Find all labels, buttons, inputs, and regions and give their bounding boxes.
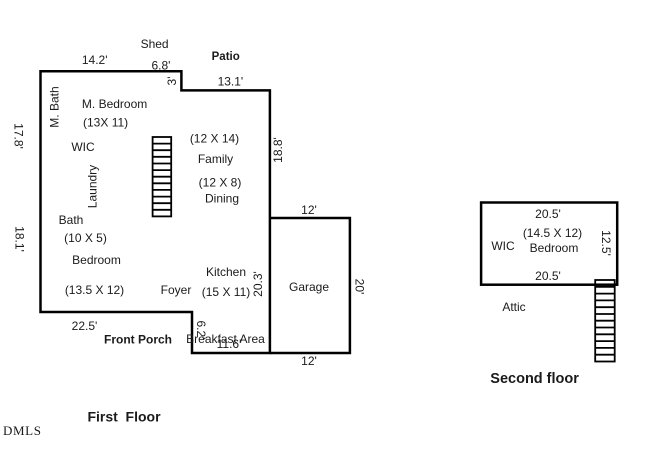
svg-text:20': 20' bbox=[353, 279, 367, 295]
svg-text:Front Porch: Front Porch bbox=[104, 333, 172, 347]
svg-text:(15 X 11): (15 X 11) bbox=[202, 285, 250, 299]
svg-text:Foyer: Foyer bbox=[161, 283, 192, 297]
svg-text:14.2': 14.2' bbox=[82, 53, 108, 67]
svg-text:Dining: Dining bbox=[205, 192, 239, 206]
svg-text:3': 3' bbox=[165, 77, 179, 86]
svg-text:DMLS: DMLS bbox=[3, 423, 42, 438]
svg-text:11.6': 11.6' bbox=[217, 337, 242, 351]
first floor staircase bbox=[153, 137, 172, 216]
svg-text:(14.5 X 12): (14.5 X 12) bbox=[523, 226, 582, 240]
svg-text:Attic: Attic bbox=[502, 300, 525, 314]
svg-text:Second floor: Second floor bbox=[490, 371, 579, 387]
svg-text:12': 12' bbox=[301, 203, 317, 217]
svg-text:12': 12' bbox=[301, 354, 317, 368]
svg-text:12.5': 12.5' bbox=[599, 230, 613, 256]
svg-text:(10 X 5): (10 X 5) bbox=[64, 231, 107, 245]
svg-text:Garage: Garage bbox=[289, 280, 329, 294]
garage wall outline bbox=[270, 218, 350, 353]
svg-text:6.2': 6.2' bbox=[194, 321, 208, 340]
svg-text:6.8': 6.8' bbox=[152, 59, 171, 73]
svg-text:18.1': 18.1' bbox=[13, 226, 27, 252]
svg-text:Bedroom: Bedroom bbox=[530, 241, 579, 255]
svg-text:20.5': 20.5' bbox=[535, 207, 561, 221]
svg-text:18.8': 18.8' bbox=[271, 137, 285, 163]
svg-text:22.5': 22.5' bbox=[72, 319, 98, 333]
first floor exterior wall outline bbox=[41, 71, 270, 353]
svg-text:Family: Family bbox=[198, 152, 233, 166]
svg-text:M. Bath: M. Bath bbox=[48, 86, 62, 127]
second floor wall outline bbox=[481, 203, 617, 285]
svg-text:WIC: WIC bbox=[491, 239, 515, 253]
svg-text:Shed: Shed bbox=[141, 37, 169, 51]
svg-text:Patio: Patio bbox=[212, 51, 240, 63]
svg-text:(13.5 X 12): (13.5 X 12) bbox=[65, 283, 124, 297]
svg-text:First Floor: First Floor bbox=[87, 409, 161, 425]
svg-text:Laundry: Laundry bbox=[86, 165, 100, 208]
svg-text:(12 X 8): (12 X 8) bbox=[199, 176, 242, 190]
svg-text:20.5': 20.5' bbox=[535, 269, 561, 283]
svg-text:13.1': 13.1' bbox=[218, 75, 244, 89]
svg-text:17.8': 17.8' bbox=[12, 123, 26, 149]
svg-text:Kitchen: Kitchen bbox=[206, 265, 246, 279]
svg-text:20.3': 20.3' bbox=[251, 271, 265, 297]
svg-text:(13X 11): (13X 11) bbox=[83, 116, 128, 130]
second floor staircase bbox=[595, 280, 615, 362]
svg-text:Bedroom: Bedroom bbox=[72, 253, 121, 267]
svg-text:(12 X 14): (12 X 14) bbox=[190, 132, 239, 146]
svg-text:WIC: WIC bbox=[71, 140, 95, 154]
svg-text:M. Bedroom: M. Bedroom bbox=[82, 97, 147, 111]
svg-text:Bath: Bath bbox=[59, 213, 84, 227]
